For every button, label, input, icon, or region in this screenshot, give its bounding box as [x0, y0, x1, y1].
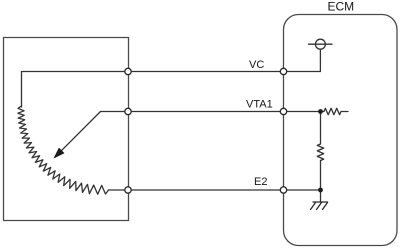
terminal VTA1 ECM	[280, 108, 286, 114]
terminal VTA1 sensor	[125, 108, 131, 114]
ECM box	[284, 15, 398, 246]
terminal VC ECM	[280, 68, 286, 74]
svg-text:VC: VC	[249, 59, 264, 71]
terminal E2 sensor	[125, 187, 131, 193]
throttle position sensor box	[4, 38, 129, 221]
wire VTA1 to E2	[320, 112, 322, 145]
ground	[311, 202, 328, 210]
svg-text:ECM: ECM	[328, 0, 355, 13]
resistor R1 (pull-up on VTA1)	[321, 108, 349, 114]
wire E2	[109, 189, 321, 191]
resistor track (potentiometer)	[18, 106, 109, 194]
junction E2	[318, 188, 323, 193]
svg-text:E2: E2	[254, 176, 267, 188]
wiper arrow	[62, 112, 101, 151]
wire VTA1	[101, 111, 321, 113]
wire to ground	[320, 161, 322, 203]
svg-text:VTA1: VTA1	[246, 99, 273, 111]
terminal E2 ECM	[280, 187, 286, 193]
resistor R2 (VTA1 to E2)	[317, 144, 323, 161]
battery terminal B+	[309, 43, 333, 45]
terminal VC sensor	[125, 68, 131, 74]
wire VC	[22, 49, 321, 107]
junction VTA1	[318, 109, 323, 114]
